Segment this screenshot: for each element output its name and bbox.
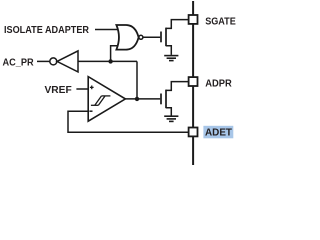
wire op-amp minus input feedback to ADET node (68, 111, 188, 132)
wire rail SGATE to ADPR (192, 24, 194, 76)
transistor Q1 source wire to ground (166, 46, 171, 55)
wire inverter output to node B (78, 60, 137, 62)
label ADET (highlighted) (203, 126, 233, 139)
pin SGATE square (189, 15, 198, 24)
wire node B vertical down (136, 61, 138, 99)
svg-text:ADET: ADET (205, 128, 232, 139)
inverter U3 triangle (57, 51, 78, 72)
transistor Q2 gate bar (160, 94, 162, 105)
pin ADET square (189, 128, 198, 137)
transistor Q2 channel bar (165, 90, 167, 109)
transistor Q1 channel bar (165, 28, 167, 47)
pin ADPR square (189, 77, 198, 86)
op-amp U2 hysteresis symbol (91, 96, 111, 105)
NOR gate U1 output bubble (139, 35, 143, 39)
node B junction dot (135, 97, 139, 101)
svg-text:AC_PR: AC_PR (3, 58, 35, 69)
op-amp U2 plus sign (90, 86, 94, 90)
transistor Q2 drain wire to ADPR pin (166, 82, 188, 91)
inverter U3 bubble (50, 58, 57, 65)
svg-text:ADPR: ADPR (205, 79, 232, 90)
svg-text:SGATE: SGATE (205, 17, 236, 28)
op-amp U2 body (88, 77, 125, 122)
wire rail above SGATE pin (192, 1, 194, 15)
svg-text:VREF: VREF (45, 85, 72, 96)
ground G2 (164, 116, 178, 121)
transistor Q1 gate bar (160, 32, 162, 43)
ground G1 (164, 56, 178, 61)
wire rail below ADET (192, 137, 194, 165)
wire VREF to op-amp plus input (76, 88, 88, 90)
op-amp U2 minus sign (89, 110, 92, 112)
transistor Q1 drain wire to SGATE pin (166, 20, 188, 29)
svg-text:ISOLATE ADAPTER: ISOLATE ADAPTER (4, 25, 90, 36)
wire NOR output to Q1 gate (143, 36, 160, 38)
wire ISOLATE ADAPTER to NOR input A (95, 29, 119, 31)
NOR gate U1 body (116, 25, 138, 50)
transistor Q2 source wire to ground (166, 108, 171, 116)
wire node A up to NOR input B (111, 46, 119, 62)
node A junction dot (108, 59, 112, 63)
wire AC_PR to inverter bubble (37, 60, 50, 62)
wire rail ADPR to ADET (192, 87, 194, 128)
wire op-amp output to Q2 gate (125, 98, 160, 100)
